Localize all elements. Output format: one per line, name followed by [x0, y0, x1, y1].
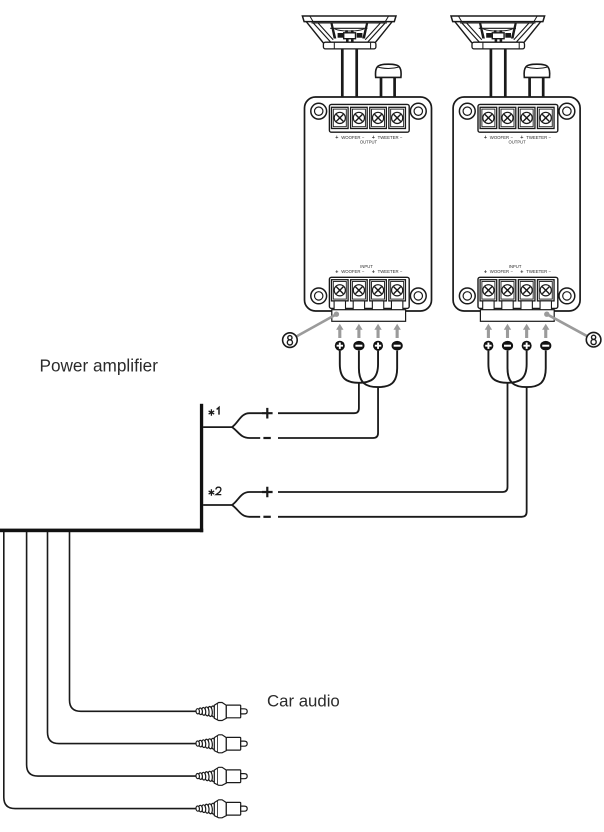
callout dot left	[334, 312, 339, 317]
crossover unit right	[451, 16, 580, 387]
crossover unit left	[302, 16, 431, 387]
rca plug 1	[196, 703, 247, 721]
svg-text:Car audio: Car audio	[267, 692, 340, 711]
plus symbol 2	[262, 487, 273, 498]
minus symbol 2	[263, 516, 270, 518]
callout circle 8 right	[586, 332, 601, 347]
rca plug 2	[196, 735, 247, 753]
amplifier thick vertical line	[200, 404, 203, 532]
splitter fork 1	[203, 413, 262, 438]
rca cable 1	[4, 532, 196, 809]
amplifier thick horizontal line	[0, 529, 203, 533]
splitter fork 2	[203, 492, 262, 517]
minus symbol 1	[263, 437, 270, 439]
callout dot right	[544, 312, 549, 317]
plus symbol 1	[262, 408, 273, 419]
wire speaker1 plus	[278, 383, 359, 414]
wire speaker2 plus	[278, 383, 508, 492]
callout line right	[547, 314, 587, 336]
rca plug 3	[196, 767, 247, 785]
rca cable 2	[27, 532, 196, 776]
rca cable 4	[70, 532, 196, 711]
callout line left	[296, 314, 336, 336]
callout circle 8 left	[283, 333, 298, 348]
wire speaker2 minus	[278, 387, 527, 517]
wire speaker1 minus	[278, 387, 378, 438]
rca plug 4	[196, 800, 247, 818]
rca cable 3	[48, 532, 196, 744]
label *1	[209, 407, 219, 415]
label *2	[209, 487, 222, 496]
svg-text:Power amplifier: Power amplifier	[40, 356, 159, 376]
